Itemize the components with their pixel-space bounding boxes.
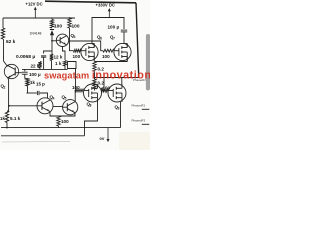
wire gate Q9 feed	[103, 78, 105, 89]
wire R8 to ground rail	[58, 126, 60, 128]
transistor Q5	[63, 100, 78, 115]
svg-text:1k: 1k	[0, 116, 5, 121]
wire Q3 emitter down	[63, 47, 66, 61]
wire ground rail B	[1, 135, 85, 137]
wire bus to C2	[24, 69, 26, 71]
svg-text:100: 100	[72, 23, 80, 29]
wire Q8 source return	[85, 101, 98, 128]
svg-text:PhasedF2: PhasedF2	[132, 103, 146, 107]
resistor R2 100	[50, 20, 53, 29]
wire Q2 base lead to cap	[19, 72, 22, 74]
resistor R4 12k	[50, 54, 53, 61]
wire emitters to R8	[50, 112, 59, 117]
svg-text:swagatam innovation: swagatam innovation	[44, 70, 150, 82]
wire R9 to ground rail	[6, 123, 8, 128]
svg-text:1N4148: 1N4148	[30, 32, 42, 36]
wire R12 to tap	[94, 72, 96, 80]
svg-text:1 k: 1 k	[55, 61, 62, 66]
wire C4 to Q7 drain	[123, 32, 125, 44]
wire R7 down to base bus	[27, 86, 28, 93]
wire box feed down	[75, 69, 77, 91]
svg-text:1k: 1k	[30, 80, 35, 85]
resistor R15 100 gate Q9	[102, 89, 109, 92]
svg-text:62 k: 62 k	[6, 39, 16, 45]
wire rail to R2	[51, 18, 53, 20]
svg-text:15 p: 15 p	[36, 82, 45, 87]
mosfet Q9	[108, 84, 126, 102]
svg-text:100: 100	[72, 85, 80, 90]
svg-text:100: 100	[54, 24, 62, 30]
resistor R3 100	[68, 18, 71, 28]
svg-text:5.1 k: 5.1 k	[10, 116, 21, 121]
capacitor C3 15p	[27, 92, 37, 94]
wire bus to Q7 side	[70, 41, 104, 51]
wire R13 to Q8 drain	[94, 89, 96, 91]
resistor R9 5.1k	[5, 111, 8, 123]
wire 1k down	[64, 66, 66, 69]
resistor R12 0.2	[93, 62, 96, 72]
svg-text:12 k: 12 k	[54, 55, 63, 60]
svg-text:100 µ: 100 µ	[29, 72, 41, 77]
wire Q7 drain link	[124, 43, 127, 45]
cream tint bottom right	[119, 132, 150, 150]
diode D1 1N4148	[50, 29, 54, 31]
transistor Q4	[37, 98, 53, 114]
wire C3 to Q4 collector	[40, 93, 48, 98]
transistor Q2	[4, 64, 18, 78]
faint scan line bottom left	[2, 140, 70, 143]
resistor R5 1k	[63, 61, 66, 67]
svg-text:0.0068 µ: 0.0068 µ	[16, 54, 35, 60]
wire Q4 to Q5	[53, 106, 63, 108]
scrollbar thumb	[146, 34, 150, 90]
resistor R6 22k	[38, 62, 41, 69]
wire left branch from rail	[2, 18, 4, 28]
resistor R10 100 gate Q6	[74, 49, 82, 52]
svg-text:6: 6	[100, 37, 102, 41]
svg-text:PhasedF3: PhasedF3	[132, 118, 146, 122]
capacitor C1 0.0068u	[41, 55, 46, 57]
node 0V arrow	[107, 128, 109, 141]
resistor R11 100 gate Q7	[103, 49, 114, 52]
svg-text:100 µ: 100 µ	[108, 25, 120, 30]
svg-text:22 k: 22 k	[31, 64, 40, 69]
svg-text:0V: 0V	[100, 136, 105, 141]
top border of schematic frame	[45, 1, 136, 3]
wire rail to Q6 drain	[91, 30, 93, 44]
wire Q9 drain up to tap	[121, 78, 123, 85]
wire Q6 Q7 sources to bus	[93, 57, 95, 62]
wire Q3 node down to Q6 gate	[70, 41, 74, 51]
svg-text:+330V DC: +330V DC	[96, 3, 115, 8]
svg-text:8: 8	[90, 104, 92, 108]
+12V rail wire	[3, 17, 75, 19]
+330V rail wire	[92, 18, 124, 31]
wire Q5 collector up	[74, 91, 76, 102]
mosfet Q7	[114, 43, 131, 60]
capacitor C2 100u	[22, 71, 28, 73]
wire R3 down to bus	[69, 28, 71, 41]
wire C2 to R7	[24, 74, 26, 78]
wire ground rail A	[1, 127, 121, 129]
svg-text:5: 5	[65, 97, 67, 101]
resistor R14 100 gate Q8	[76, 89, 84, 92]
wire 22k bottom bus	[22, 68, 68, 70]
resistor R1 62k	[1, 28, 4, 39]
resistor R8 100	[57, 116, 60, 126]
svg-text:4: 4	[53, 97, 55, 101]
svg-text:100: 100	[73, 54, 81, 59]
wire node A branch left	[44, 51, 52, 54]
svg-text:100: 100	[102, 54, 110, 59]
svg-text:3: 3	[74, 35, 76, 39]
node +330V supply arrow	[108, 9, 110, 17]
wire Q9 source return	[120, 102, 122, 128]
resistor R13 0.2	[93, 79, 96, 89]
svg-text:7: 7	[113, 37, 115, 41]
svg-text:9: 9	[118, 107, 120, 111]
wire 62k to Q2 base	[3, 39, 5, 61]
wire node A to Q3 base	[52, 40, 56, 42]
wire 12k down	[51, 61, 53, 70]
transistor Q3	[56, 34, 68, 46]
svg-text:2: 2	[4, 86, 6, 90]
wire C1 down	[43, 58, 45, 70]
node A junction dot	[51, 40, 53, 42]
mosfet Q8	[84, 84, 102, 102]
wire D1 to node A	[51, 35, 53, 54]
svg-text:+12V DC: +12V DC	[26, 2, 43, 7]
right border of schematic frame	[136, 3, 139, 78]
wire Q2 emitter down	[7, 78, 10, 111]
wire base bus to Q4	[9, 105, 37, 107]
mosfet Q6	[81, 43, 98, 60]
node +12V supply arrow	[34, 8, 36, 18]
wire loop to Q8 gate feed	[68, 62, 77, 69]
capacitor C4 100u hv	[121, 29, 127, 31]
resistor R7 1k	[26, 79, 29, 87]
svg-text:100: 100	[61, 119, 69, 124]
node tap output wire	[95, 77, 140, 79]
node rail junction dot	[69, 17, 71, 19]
